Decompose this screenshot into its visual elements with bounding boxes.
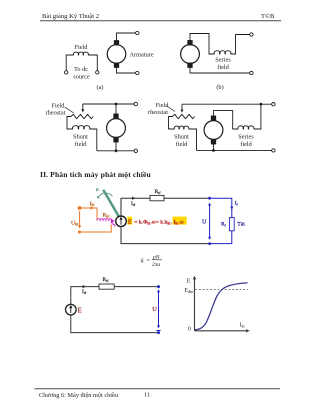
ukt top rail	[80, 208, 98, 220]
fig shunt: junction dot top	[115, 103, 118, 106]
svg-text:Field: Field	[156, 102, 170, 109]
ukt voltage arrow line	[79, 211, 81, 226]
fig shunt: left connecting wire	[67, 117, 73, 130]
fig shunt: brush bottom	[114, 138, 118, 142]
fig shunt: top terminal	[134, 102, 137, 105]
U voltage arrow	[157, 289, 160, 292]
svg-text:Ikt: Ikt	[90, 201, 96, 207]
fig (b) terminal top	[250, 33, 253, 36]
svg-text:Eđm: Eđm	[185, 288, 195, 294]
svg-text:E: E	[128, 219, 132, 225]
fig compound: top wire	[182, 103, 272, 105]
emf arrow inside	[120, 220, 122, 225]
y axis	[194, 278, 196, 331]
shaft (teal)	[103, 190, 119, 217]
svg-text:Tải: Tải	[237, 221, 245, 227]
fig compound: left connecting wire	[169, 117, 175, 130]
fig compound: brush top	[211, 116, 215, 120]
header rule	[40, 20, 281, 22]
rotation arc	[98, 193, 112, 197]
junction dot bottom (node U-)	[208, 242, 211, 245]
svg-text:2πa: 2πa	[152, 262, 161, 268]
fig (a) armature terminal top	[136, 31, 139, 34]
fig shunt: rheostat wiper arrow	[82, 104, 84, 110]
svg-text:= k.Φkt.ω: = k.Φkt.ω	[134, 219, 156, 225]
svg-text:Armature: Armature	[130, 51, 154, 58]
fig compound: armature bottom wire	[197, 144, 272, 150]
svg-text:Rư: Rư	[155, 189, 162, 195]
fig (b) brush bottom	[188, 63, 192, 67]
resistor Rư box (bottom circuit)	[99, 284, 114, 289]
minus dash	[156, 330, 160, 332]
armature wire bottom	[121, 227, 210, 244]
fig (b) terminal bottom	[250, 71, 253, 74]
svg-text:Series: Series	[215, 57, 231, 64]
U voltage arrow heads	[208, 203, 211, 206]
fig shunt: bottom terminal	[134, 149, 137, 152]
svg-text:= k.kkt.: = k.kkt.	[156, 219, 173, 225]
ukt bottom rail	[79, 224, 111, 232]
fig (a) field terminal left	[65, 71, 68, 74]
fig (a) armature circle	[107, 45, 126, 64]
fig compound: brush bottom	[211, 140, 215, 144]
svg-text:Shunt: Shunt	[174, 134, 189, 141]
resistor Rư box	[150, 195, 164, 200]
svg-text:Field: Field	[52, 103, 66, 110]
svg-text:U: U	[202, 219, 207, 226]
armature wire top	[121, 198, 210, 216]
svg-text:field: field	[75, 141, 87, 148]
fig (a) field wires	[66, 55, 97, 71]
ukt terminal dot top (node +)	[78, 206, 81, 209]
fig (b) bottom wire	[190, 67, 250, 73]
load branch blue top	[210, 198, 232, 217]
fig (b) wire coil to top terminal	[231, 35, 250, 55]
svg-text:To dc: To dc	[74, 66, 88, 73]
svg-text:Field: Field	[75, 44, 89, 51]
fig compound: junction dot bottom	[212, 149, 215, 152]
dashed line	[195, 289, 248, 291]
e source top wire	[71, 287, 159, 305]
fig (a) brush top	[114, 41, 118, 45]
fig shunt: coil to bottom wire	[90, 129, 97, 151]
fig shunt: rheostat zigzag	[71, 114, 93, 118]
svg-text:Chương 6: Máy điện một chiều: Chương 6: Máy điện một chiều	[39, 392, 119, 399]
svg-text:Series: Series	[238, 134, 254, 141]
load branch blue bottom	[210, 231, 232, 244]
svg-text:field: field	[240, 141, 252, 148]
svg-text:Rkt: Rkt	[103, 213, 111, 219]
fig compound: label pointer	[167, 106, 175, 112]
fig compound: top terminal	[272, 103, 275, 106]
svg-text:Ikt.ω: Ikt.ω	[173, 219, 183, 225]
svg-text:n: n	[96, 187, 99, 193]
fig compound: junction dot top	[260, 103, 263, 106]
svg-text:Rư: Rư	[103, 277, 110, 283]
resistor Rt load box	[229, 218, 234, 231]
footer rule	[35, 388, 281, 390]
fig compound: wiper arrow	[181, 104, 183, 110]
fig compound: coil to bottom wire	[189, 129, 197, 150]
svg-text:0: 0	[188, 326, 191, 332]
ukt arrowhead down	[78, 225, 81, 228]
svg-text:U: U	[152, 306, 157, 313]
fig shunt: junction dot bottom	[115, 149, 118, 152]
It arrowhead down	[230, 207, 233, 210]
fig (a) armature wires	[117, 33, 136, 73]
svg-text:rheostat: rheostat	[46, 110, 66, 117]
fig (b) series coil	[214, 51, 231, 54]
svg-text:T©B: T©B	[261, 13, 275, 20]
fig shunt: brush top	[114, 114, 118, 118]
svg-text:II. Phân tích máy phát một chi: II. Phân tích máy phát một chiều	[40, 170, 151, 179]
fig compound: armature top to series coil	[214, 111, 239, 129]
svg-text:Bài giảng Kỹ Thuật 2: Bài giảng Kỹ Thuật 2	[42, 13, 99, 20]
U arrow line	[209, 205, 211, 239]
fig shunt: top wire	[83, 103, 134, 105]
svg-text:11: 11	[144, 392, 150, 399]
terminal dot top (node U+)	[157, 285, 160, 288]
fig (a) armature terminal bottom	[136, 71, 139, 74]
fig (b) armature circle	[181, 45, 200, 64]
svg-text:field: field	[176, 141, 188, 148]
svg-text:k: k	[141, 258, 144, 264]
fig shunt: armature circle	[107, 119, 126, 138]
fig (a) field terminal right	[96, 71, 99, 74]
coil arrow tip magenta	[111, 219, 115, 223]
svg-text:Ukt: Ukt	[71, 220, 79, 226]
fig shunt: bottom wire	[97, 150, 134, 152]
fig shunt: label pointer	[65, 107, 74, 113]
fig compound: bottom terminal	[272, 149, 275, 152]
x axis	[195, 330, 248, 332]
emf formula highlights	[127, 217, 132, 225]
fig compound: shunt coil	[174, 126, 189, 129]
fig (a) field coil	[73, 52, 88, 55]
svg-text:Ikt: Ikt	[240, 323, 246, 329]
svg-text:E: E	[78, 307, 82, 315]
junction dot top (node U+)	[208, 197, 211, 200]
svg-text:Shunt: Shunt	[73, 134, 88, 141]
svg-text:(a): (a)	[97, 84, 104, 91]
fig shunt: shunt coil	[73, 126, 90, 129]
svg-text:(b): (b)	[216, 84, 223, 91]
ikt arrowhead	[91, 206, 94, 209]
svg-text:source: source	[73, 73, 90, 80]
fig shunt: armature vertical wires	[115, 104, 117, 151]
svg-text:rheostat: rheostat	[148, 109, 168, 116]
fig compound: series coil to top wire	[254, 104, 261, 129]
ukt terminal dot bottom (node -)	[78, 231, 81, 234]
fig compound: armature circle	[204, 121, 223, 140]
source E emf arrow inside	[70, 308, 72, 313]
iu arrowhead bottom circuit	[83, 285, 86, 288]
e source bottom wire	[71, 315, 159, 333]
svg-text:field: field	[217, 64, 229, 71]
fig (b) top wire to series coil	[190, 34, 214, 55]
generator circle	[116, 216, 127, 227]
terminal dot bottom (node U-)	[157, 331, 160, 334]
iu arrowhead	[132, 197, 135, 200]
fig compound: series coil	[238, 126, 254, 129]
fig compound: rheostat zigzag	[173, 114, 195, 118]
svg-text:E: E	[187, 277, 191, 284]
source E circle	[66, 304, 77, 315]
fig (a) brush bottom	[114, 63, 118, 67]
field winding coil Rkt (magenta)	[97, 219, 115, 227]
magnetization curve	[195, 283, 248, 330]
fig (b) brush top	[188, 41, 192, 45]
